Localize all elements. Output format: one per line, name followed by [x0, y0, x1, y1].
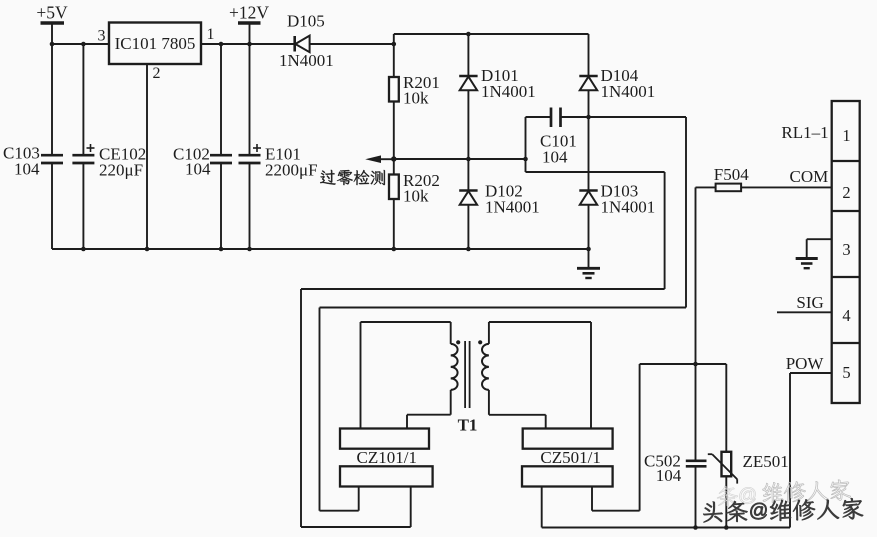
op-amp IC101 7805 regulator box — [109, 23, 201, 65]
watermark light outline 维修人家 — [762, 479, 850, 503]
svg-text:D105: D105 — [287, 12, 325, 31]
transformer T1 phase dot secondary — [478, 340, 482, 344]
diode D101 1N4001 — [459, 34, 536, 159]
svg-text:104: 104 — [14, 160, 40, 179]
watermark dark 头条@维修人家 — [703, 498, 863, 523]
label 过零检测 — [320, 170, 385, 185]
label POW — [786, 354, 825, 373]
svg-text:POW: POW — [786, 354, 825, 373]
diode D105 1N4001 — [279, 12, 394, 71]
transformer T1 phase dot primary — [456, 340, 460, 344]
svg-text:COM: COM — [790, 167, 829, 186]
pin number 4 — [842, 306, 850, 325]
wire IC101 pin2 to ground rail — [146, 64, 148, 249]
pin 1 label — [207, 26, 215, 43]
wire pin3 to ground — [807, 239, 832, 257]
resistor R201 10k — [389, 44, 440, 159]
svg-text:CZ501/1: CZ501/1 — [540, 448, 600, 467]
ground pin3 — [796, 259, 818, 269]
fuse F504 — [696, 165, 832, 191]
svg-text:104: 104 — [656, 466, 682, 485]
svg-text:+12V: +12V — [229, 3, 269, 23]
connector CZ101/1 lower bar — [340, 466, 433, 486]
wire top rail y34 — [394, 32, 589, 44]
label CZ501/1 — [540, 448, 600, 467]
wire CZ501 lower to C502 net — [592, 364, 640, 511]
pin number 5 — [842, 363, 850, 382]
connector CZ101/1 upper bar — [340, 429, 429, 449]
wire SIG — [777, 311, 832, 313]
diode D104 1N4001 — [579, 34, 655, 117]
svg-text:2200μF: 2200μF — [265, 161, 318, 180]
watermark light outline 条@ — [717, 485, 756, 507]
connector RL1-1 body — [832, 101, 860, 403]
wire C101 left to middle rail — [525, 117, 527, 172]
label RL1-1 — [781, 123, 828, 142]
wire CZ501 lower to bottom rail — [541, 487, 543, 528]
capacitor C101 104 — [526, 108, 589, 167]
pin number 2 — [842, 183, 850, 202]
svg-text:104: 104 — [542, 148, 568, 167]
wire +12V rail y44 — [201, 42, 295, 47]
svg-text:IC101 7805: IC101 7805 — [115, 34, 196, 53]
arrow zero-cross detect — [365, 155, 394, 163]
wire POW riser — [790, 373, 832, 528]
pin number 1 — [842, 126, 850, 145]
node D104 anode junction — [586, 115, 591, 120]
pin number 3 — [842, 240, 850, 259]
capacitor C102 — [173, 44, 232, 249]
capacitor C103 — [3, 44, 63, 249]
svg-text:1N4001: 1N4001 — [601, 198, 656, 217]
svg-text:1N4001: 1N4001 — [601, 82, 656, 101]
wire F504 down leg — [693, 187, 698, 527]
svg-text:10k: 10k — [403, 89, 429, 108]
pin 3 label — [98, 28, 106, 45]
svg-text:4: 4 — [842, 306, 850, 325]
label SIG — [796, 293, 823, 312]
svg-text:+5V: +5V — [36, 3, 68, 23]
transformer T1 core — [465, 341, 470, 408]
svg-text:3: 3 — [842, 240, 850, 259]
svg-text:104: 104 — [185, 160, 211, 179]
varistor ZE501 — [708, 364, 789, 528]
svg-text:2: 2 — [153, 65, 161, 82]
label COM — [790, 167, 829, 186]
svg-text:T1: T1 — [458, 416, 478, 435]
pin 2 label — [153, 65, 161, 82]
power +12V — [229, 3, 269, 45]
transformer T1 secondary winding — [482, 322, 591, 429]
diode D103 1N4001 — [579, 117, 655, 249]
connector CZ501/1 lower bar — [522, 466, 613, 486]
svg-text:1N4001: 1N4001 — [481, 82, 536, 101]
svg-text:CZ101/1: CZ101/1 — [357, 448, 417, 467]
svg-text:1N4001: 1N4001 — [485, 198, 540, 217]
diode D102 1N4001 — [459, 159, 540, 249]
wire bottom rail right — [542, 525, 790, 530]
svg-text:SIG: SIG — [796, 293, 823, 312]
svg-text:ZE501: ZE501 — [743, 452, 789, 471]
wire main +5V rail y44 left — [50, 42, 109, 47]
label CZ101/1 — [357, 448, 417, 467]
resistor R202 10k — [389, 159, 440, 249]
svg-text:F504: F504 — [714, 165, 749, 184]
node zero-cross junction — [391, 156, 396, 161]
svg-text:3: 3 — [98, 28, 106, 45]
ground main — [577, 249, 600, 278]
svg-text:10k: 10k — [403, 187, 429, 206]
svg-text:1N4001: 1N4001 — [279, 51, 334, 70]
wire C502/ZE501 top link y364 — [640, 363, 727, 365]
svg-text:220μF: 220μF — [99, 161, 143, 180]
svg-text:5: 5 — [842, 363, 850, 382]
svg-text:2: 2 — [842, 183, 850, 202]
transformer T1 primary winding — [361, 322, 458, 429]
capacitor E101 2200uF — [239, 44, 318, 249]
svg-text:RL1–1: RL1–1 — [781, 123, 828, 142]
svg-text:1: 1 — [842, 126, 850, 145]
wire middle rail y159 — [394, 157, 528, 162]
node junction D105 output — [392, 42, 397, 47]
wire net Q: C101 right to CZ101 — [320, 117, 687, 511]
connector CZ501/1 upper bar — [523, 429, 613, 449]
wire net P: middle rail to outer loop — [301, 172, 665, 527]
wire ground rail y249 — [52, 247, 591, 252]
svg-text:1: 1 — [207, 26, 215, 43]
capacitor CE102 220uF — [72, 44, 146, 249]
power +5V — [36, 3, 68, 45]
capacitor C502 104 — [644, 452, 707, 486]
label T1 — [458, 416, 478, 435]
